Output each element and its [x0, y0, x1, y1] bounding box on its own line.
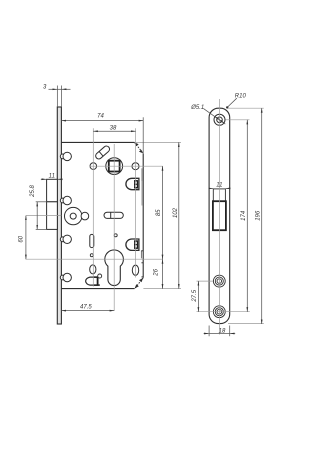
svg-text:196: 196 — [255, 210, 261, 221]
dim 47.5 (backset) — [61, 310, 114, 312]
centerline vertical x135.6 — [135, 128, 137, 277]
screw post 2 — [60, 196, 71, 204]
dim 74 — [142, 117, 144, 153]
svg-text:38: 38 — [110, 125, 117, 131]
leader R10 — [227, 98, 237, 107]
dim 27.5 — [197, 281, 199, 312]
right mounting hole — [132, 163, 139, 170]
grey edge insert top right — [141, 168, 142, 181]
follower circle — [106, 158, 123, 175]
euro cylinder hole — [105, 250, 124, 286]
svg-text:26: 26 — [153, 268, 159, 276]
horizontal slot (spring) — [104, 212, 123, 218]
centerline vertical x93.3 — [92, 128, 94, 286]
centerline vertical x114.2 — [113, 144, 115, 311]
dim 102 — [178, 142, 180, 288]
screw post 3 — [60, 235, 71, 243]
centerline horizontal y166.2 — [90, 165, 163, 167]
svg-text:R10: R10 — [235, 93, 247, 99]
faceplate front view plate — [209, 108, 230, 323]
small hole center — [114, 234, 117, 237]
faceplate (side view bar) — [57, 107, 61, 324]
extension y108.2 plate top — [227, 107, 264, 109]
top screw hole — [214, 114, 225, 125]
plate centerline — [219, 99, 221, 335]
svg-text:25.8: 25.8 — [30, 185, 36, 198]
svg-text:85: 85 — [156, 209, 162, 216]
dim 60 — [25, 216, 27, 260]
svg-text:11: 11 — [49, 173, 55, 179]
screw post 1 — [60, 152, 71, 160]
left mounting hole — [90, 163, 97, 170]
dim 11 (latch protrusion) — [41, 178, 63, 180]
D cutout 1 (right upper) — [126, 178, 139, 189]
svg-text:11: 11 — [216, 182, 222, 188]
svg-text:60: 60 — [18, 235, 24, 242]
big circle (lever pivot) — [65, 207, 82, 224]
extension y323.6 plate bottom — [228, 323, 264, 325]
svg-text:102: 102 — [173, 207, 179, 218]
lock body outline — [61, 142, 143, 288]
centerline horizontal y215.6 (deadbolt axis) — [26, 215, 61, 217]
angled slot top-left — [94, 145, 110, 160]
small hole left — [90, 254, 93, 257]
lower screw hole 1 — [213, 275, 225, 287]
lower screw hole 2 — [213, 306, 225, 318]
screw post 4 — [60, 273, 71, 281]
D cutout 2 (right lower) — [126, 239, 139, 250]
extension line y288.6 to 102 dim — [143, 288, 181, 290]
extension line y142.4 to 102 dim — [136, 141, 182, 143]
svg-text:74: 74 — [97, 113, 104, 119]
latch bolt — [47, 179, 58, 202]
edge jog bottom right — [140, 251, 142, 259]
dim 85 — [162, 166, 164, 259]
small hole at D3 — [98, 274, 102, 278]
deadbolt — [47, 202, 58, 230]
latch opening — [213, 189, 225, 201]
svg-text:Ø5.1: Ø5.1 — [190, 105, 204, 111]
bottom chamfer edge with arrows — [135, 278, 144, 289]
extension y311.7 — [197, 311, 250, 313]
extension y281.1 — [197, 280, 214, 282]
top chamfer edge with arrows — [134, 142, 143, 153]
dim 196 — [261, 108, 263, 324]
leader dia 5.1 — [204, 109, 226, 125]
oval left — [90, 265, 96, 274]
dim 38 — [93, 130, 135, 132]
dim 174 — [246, 120, 248, 312]
svg-text:47.5: 47.5 — [80, 305, 92, 311]
right edge ticks — [141, 251, 143, 277]
svg-text:27.5: 27.5 — [192, 289, 198, 302]
small circle beside pivot — [81, 212, 89, 220]
D cutout 3 (bottom, with stop bar) — [86, 277, 98, 285]
svg-text:174: 174 — [241, 210, 247, 221]
dim 18 (plate width) — [204, 326, 236, 337]
oval near right edge — [132, 265, 138, 275]
svg-text:18: 18 — [219, 329, 226, 335]
dim 25.8 (deadbolt height) — [36, 202, 47, 230]
dim 3 (faceplate thickness) — [49, 86, 71, 108]
pivot inner hole — [70, 213, 76, 219]
centerline horizontal y259.2 (cylinder axis) — [26, 258, 163, 260]
follower square — [109, 161, 120, 172]
latch head in opening — [213, 201, 226, 230]
dim 11 (latch opening) — [209, 187, 231, 189]
extension y119.8 top hole — [226, 119, 250, 121]
dim 26 — [162, 259, 164, 288]
vertical slot left — [90, 234, 94, 247]
